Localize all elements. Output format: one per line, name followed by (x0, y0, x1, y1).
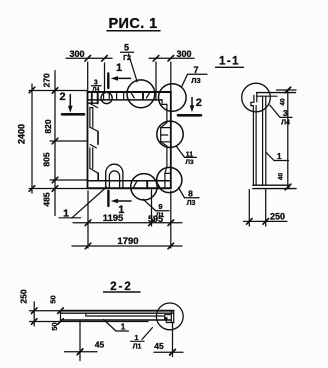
svg-text:250: 250 (19, 289, 29, 303)
svg-text:Л1: Л1 (133, 343, 142, 350)
svg-text:3: 3 (283, 108, 288, 118)
svg-text:50: 50 (50, 322, 59, 330)
svg-text:8: 8 (188, 189, 193, 199)
svg-text:РИС. 1: РИС. 1 (108, 16, 157, 32)
svg-text:50: 50 (49, 295, 58, 303)
svg-text:Л3: Л3 (191, 76, 200, 85)
svg-text:2: 2 (196, 97, 202, 109)
svg-text:485: 485 (42, 192, 52, 206)
svg-text:805: 805 (42, 152, 52, 166)
svg-text:820: 820 (43, 119, 53, 133)
svg-text:2400: 2400 (17, 124, 27, 144)
svg-text:Л1: Л1 (156, 212, 165, 219)
svg-text:9: 9 (158, 202, 162, 211)
svg-text:300: 300 (176, 49, 191, 59)
svg-text:Л4: Л4 (281, 119, 290, 126)
svg-text:7: 7 (193, 65, 198, 75)
svg-text:Л3: Л3 (185, 159, 194, 166)
svg-text:1: 1 (116, 62, 122, 74)
svg-text:40: 40 (279, 98, 286, 106)
svg-text:5: 5 (124, 43, 129, 53)
svg-text:45: 45 (95, 340, 105, 350)
svg-text:45: 45 (154, 341, 164, 351)
svg-text:1: 1 (121, 322, 126, 332)
svg-text:270: 270 (42, 73, 52, 87)
svg-text:300: 300 (69, 49, 84, 59)
svg-text:40: 40 (278, 173, 285, 181)
svg-text:1: 1 (134, 333, 138, 342)
svg-text:2-2: 2-2 (110, 281, 133, 293)
svg-text:250: 250 (270, 212, 285, 222)
svg-text:1-1: 1-1 (219, 56, 240, 68)
svg-text:Л4: Л4 (93, 87, 101, 93)
svg-text:1: 1 (118, 204, 124, 216)
svg-text:1: 1 (277, 151, 282, 161)
svg-text:Л3: Л3 (187, 200, 196, 207)
svg-text:1790: 1790 (117, 236, 138, 247)
svg-text:2: 2 (59, 91, 65, 103)
